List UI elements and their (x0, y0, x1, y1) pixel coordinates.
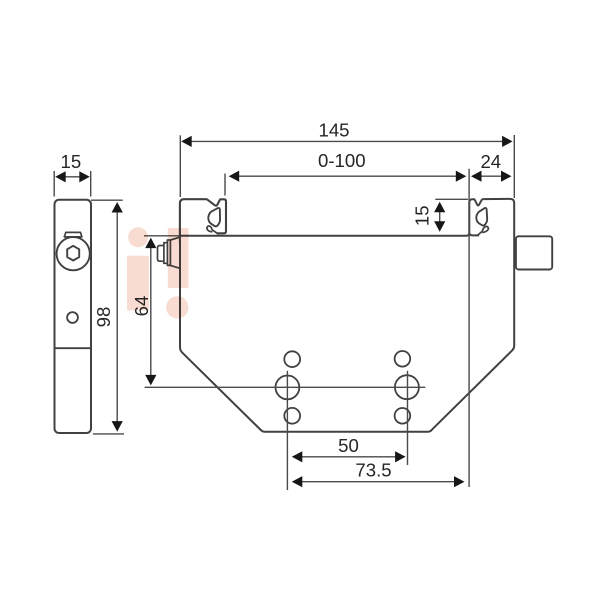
left vertical centerline (286, 371, 288, 490)
hole group right: top small (395, 351, 411, 367)
right vertical centerline (407, 371, 409, 465)
hole group left: top small (284, 351, 300, 367)
hole group right: middle large (395, 375, 419, 399)
horizontal centerline (145, 386, 426, 388)
dim 15 side: line and arrows (58, 176, 87, 178)
dim 145: line and arrows (184, 140, 509, 142)
left clip outline (180, 199, 226, 243)
svg-text:15: 15 (61, 151, 82, 172)
main plate top edge (180, 233, 469, 236)
side view cap tab (64, 232, 82, 237)
svg-text:0-100: 0-100 (318, 150, 366, 171)
dim 98: line and arrows (116, 206, 118, 428)
watermark dot upper-left (128, 227, 148, 247)
dim 15 side: extension lines (53, 171, 55, 197)
hole group left: middle large (276, 376, 300, 400)
dim 24: line and arrows (480, 175, 502, 177)
left nut body (167, 237, 180, 268)
hole group left: bottom small (284, 408, 300, 424)
left nut step (164, 243, 168, 264)
right knob (516, 236, 552, 269)
dim 145: extension left (179, 135, 181, 197)
right clip hook curl (477, 226, 488, 235)
watermark logo overlay (127, 227, 189, 318)
right clip outline (469, 199, 483, 232)
main plate top edge extension (left, for dim 64) (144, 235, 180, 237)
svg-text:50: 50 (338, 435, 359, 456)
watermark bar right (168, 228, 189, 288)
dim 145: extension right (513, 135, 515, 198)
right clip foot (469, 232, 479, 235)
svg-text:15: 15 (411, 205, 432, 226)
main plate outline right portion (180, 199, 514, 432)
left clip hook curl (207, 226, 218, 234)
side view hex socket (67, 246, 79, 261)
dim 15 vertical: extension line (435, 198, 468, 200)
side view outline (55, 200, 92, 433)
watermark bar left (127, 256, 149, 311)
dim 73.5: line and arrows (294, 481, 462, 483)
dim 0-100: line and arrows (231, 175, 464, 177)
svg-text:145: 145 (318, 119, 349, 140)
side view screw circle (57, 237, 90, 270)
hole group right: bottom small (395, 408, 411, 424)
dim 50: line and arrows (294, 456, 403, 458)
side view small hole (67, 312, 78, 323)
right clip slot (476, 208, 487, 226)
svg-text:98: 98 (93, 307, 114, 328)
left nut divider (169, 240, 171, 265)
dim 98: extension lines (91, 199, 123, 201)
left nut tip (158, 246, 164, 262)
svg-text:24: 24 (480, 151, 501, 172)
watermark dot lower-right (166, 296, 188, 318)
dim 64: line and arrows (150, 242, 152, 381)
svg-text:73.5: 73.5 (355, 460, 391, 481)
side view divider (55, 347, 92, 349)
left clip slot (208, 208, 220, 226)
vertical reference line V1 (468, 169, 470, 487)
dim 0-100: extension left (224, 174, 226, 196)
dim 15 vertical: line and arrows (439, 205, 441, 228)
